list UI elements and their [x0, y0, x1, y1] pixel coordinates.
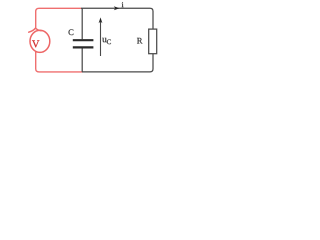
wire: right branch top: [150, 8, 153, 29]
current arrow i on top wire: [114, 6, 120, 10]
wire: right branch bottom: [150, 54, 153, 72]
capacitor C plates: [73, 40, 94, 47]
voltage source arrow head (pointing up, on left wire): [29, 28, 42, 32]
wire: black bottom: [82, 71, 150, 73]
wire: red source branch top: [36, 8, 83, 72]
resistor R box: [149, 29, 157, 54]
wire: capacitor branch bottom: [81, 48, 83, 72]
voltage source V1 circle: [30, 30, 50, 52]
label i: [122, 2, 124, 7]
wire: capacitor branch top: [81, 8, 83, 39]
label V: [32, 40, 39, 47]
label R: [137, 38, 142, 44]
label u_C: [102, 38, 106, 42]
voltage arrow u_C (pointing up): [100, 21, 102, 57]
label C: [69, 29, 74, 35]
wire: black top (node to resistor): [81, 8, 153, 72]
wire: red source branch bottom: [36, 51, 83, 72]
